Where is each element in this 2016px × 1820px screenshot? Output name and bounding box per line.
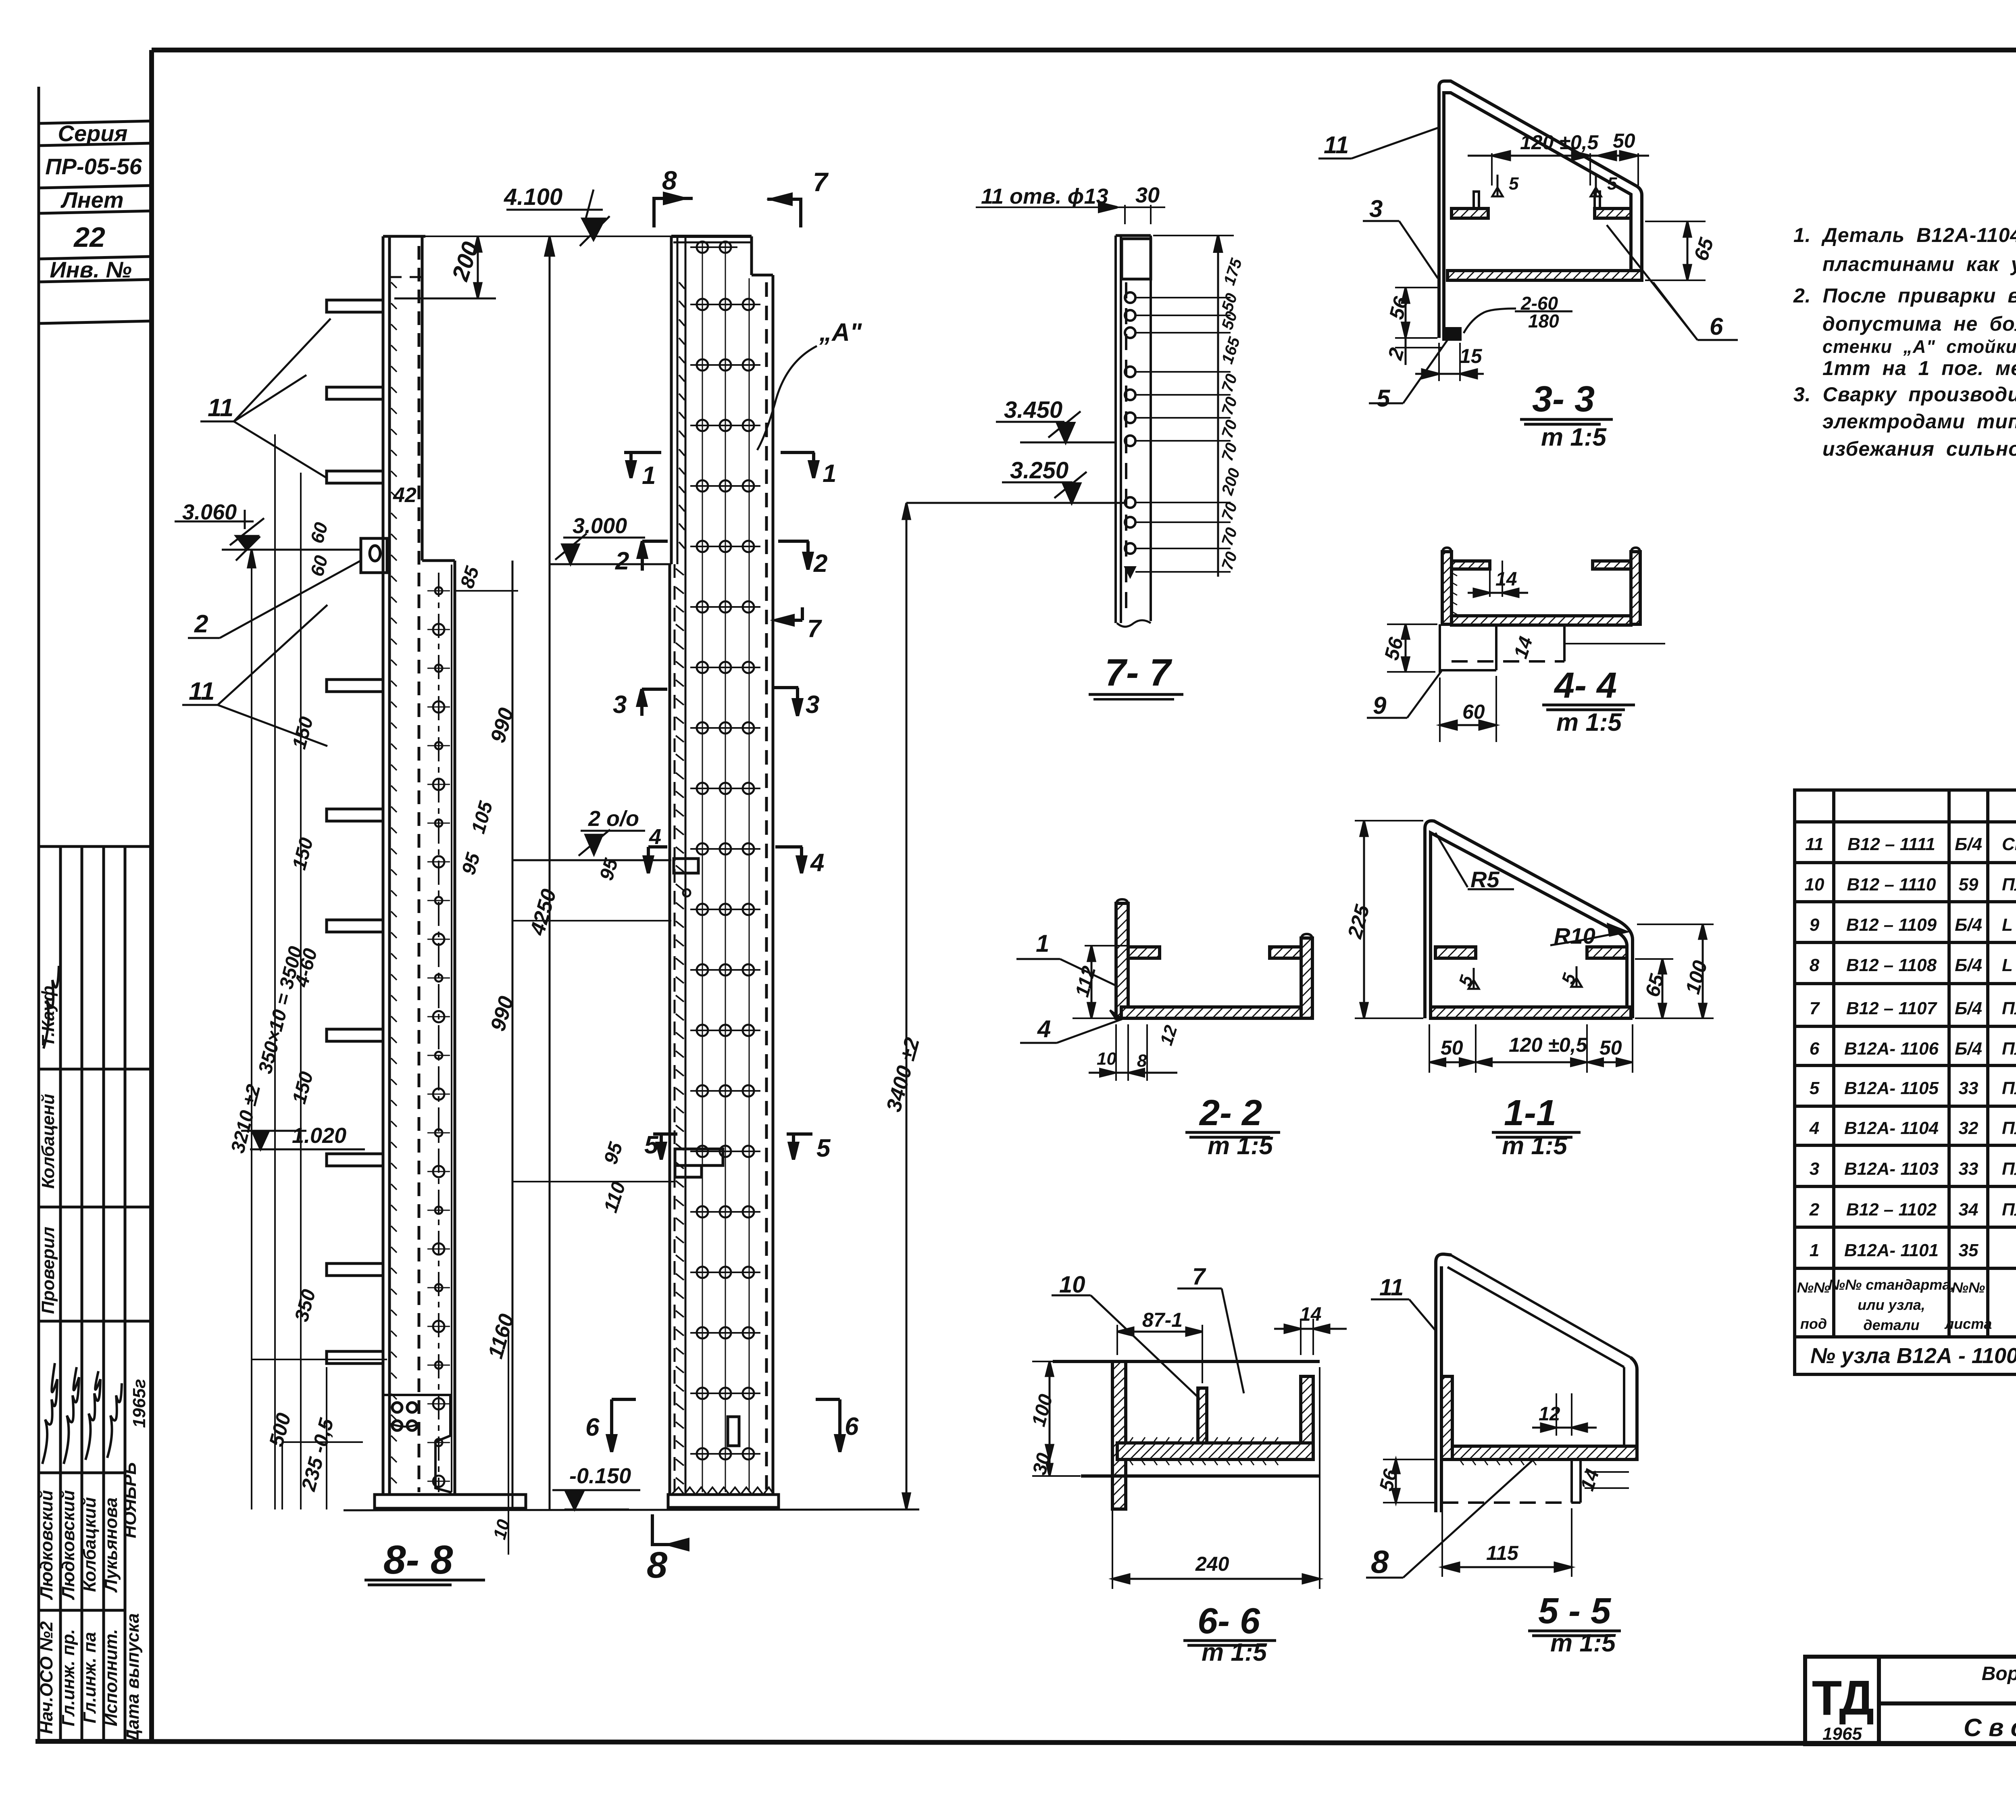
svg-text:Пластина - 6×60×120: Пластина - 6×60×120	[2002, 1200, 2016, 1220]
bottom node row	[1810, 1338, 2016, 1377]
svg-text:электродами типа Э42 ГОСТ: электродами типа Э42 ГОСТ 9467-60 с пере…	[1822, 410, 2016, 433]
dim 350x10=3500	[274, 434, 276, 1509]
svg-text:1-1: 1-1	[1504, 1093, 1556, 1133]
svg-text:7: 7	[1192, 1263, 1206, 1290]
svg-text:Гл.инж. пр.: Гл.инж. пр.	[58, 1629, 78, 1726]
svg-text:Лукьянова: Лукьянова	[101, 1497, 121, 1593]
post bar	[1114, 236, 1117, 623]
row 4	[1809, 1115, 2016, 1146]
svg-text:3. Сварку производить как: 3. Сварку производить как указано на чер…	[1793, 383, 2016, 406]
top cap box	[1122, 239, 1151, 279]
bottom web	[1452, 616, 1631, 625]
svg-text:1: 1	[1810, 1240, 1819, 1260]
level 3.060 left	[222, 549, 361, 551]
svg-text:42: 42	[393, 484, 417, 507]
mark 5 right	[787, 1134, 831, 1162]
weld marks	[1468, 966, 1582, 989]
weld serrations	[1129, 1437, 1278, 1443]
3.250 level	[1002, 482, 1073, 484]
svg-text:8- 8: 8- 8	[383, 1537, 453, 1582]
vertical plate	[1436, 1254, 1452, 1512]
bottom-left signature block	[39, 846, 152, 1741]
section cut marks around main view	[585, 165, 859, 1586]
dim 65 + 100 right	[1635, 924, 1714, 1018]
svg-text:В12 – 1111: В12 – 1111	[1847, 834, 1935, 854]
svg-text:1: 1	[642, 462, 656, 490]
svg-text:10: 10	[1805, 875, 1824, 894]
level 3.000 mid	[563, 537, 645, 539]
svg-text:180: 180	[1528, 311, 1559, 331]
middle stiffener	[1198, 1388, 1207, 1446]
svg-text:Б/4: Б/4	[1955, 955, 1982, 975]
svg-text:11: 11	[189, 678, 215, 705]
ground datum line	[344, 1509, 919, 1510]
right dim chain	[1217, 236, 1219, 577]
svg-text:2- 2: 2- 2	[1199, 1093, 1262, 1133]
svg-text:1: 1	[1036, 930, 1049, 957]
svg-text:В12 – 1109: В12 – 1109	[1846, 915, 1937, 935]
svg-text:5: 5	[1377, 385, 1391, 412]
svg-text:ПР-05-56: ПР-05-56	[45, 154, 142, 179]
small bracket on left post	[361, 538, 387, 573]
profile outline outer	[1425, 821, 1633, 1018]
main view labels	[182, 184, 924, 1582]
dimensions of main view	[175, 190, 1125, 1555]
svg-text:10: 10	[1059, 1272, 1085, 1298]
svg-text:6- 6: 6- 6	[1198, 1601, 1260, 1641]
svg-text:детали: детали	[1863, 1317, 1919, 1333]
svg-text:Колбаценй: Колбаценй	[38, 1094, 58, 1189]
left plate	[1116, 903, 1128, 1018]
right post outline	[668, 236, 779, 1507]
svg-text:Ступень Б×40×450: Ступень Б×40×450	[2002, 834, 2016, 854]
TD logo	[1812, 1670, 1873, 1744]
svg-text:Исполнит.: Исполнит.	[101, 1629, 121, 1726]
mark 1 right	[781, 452, 836, 488]
svg-text:60: 60	[1462, 700, 1485, 723]
row 7	[1810, 994, 2016, 1024]
weld serrations under web	[1460, 1459, 1536, 1465]
mark 7 top	[767, 167, 829, 227]
svg-text:1mm на 1 пог. метр и 2mm: 1mm на 1 пог. метр и 2mm на всей длине.	[1822, 357, 2016, 379]
svg-text:1.020: 1.020	[292, 1124, 346, 1148]
TITLE BLOCK	[1805, 1657, 2016, 1744]
bottom web hatched	[1447, 271, 1642, 280]
svg-text:В12А- 1105: В12А- 1105	[1844, 1078, 1939, 1098]
left flange	[1442, 552, 1452, 624]
svg-text:8: 8	[662, 165, 677, 195]
mark 8 bottom	[647, 1514, 688, 1586]
svg-text:С в сборе В12А - 1100: С в сборе В12А - 1100	[1964, 1714, 2016, 1742]
chain dim line x=746 (left 150 chain)	[300, 473, 302, 1509]
row 6	[1810, 1035, 2016, 1064]
long dim line 4250 (x=1363)	[549, 236, 551, 1509]
right flange	[1595, 208, 1631, 218]
row 11	[1805, 831, 2016, 861]
bottom web	[1117, 1443, 1313, 1459]
bottom line	[1081, 1474, 1320, 1478]
dim 120+-0.5 / 50	[1468, 151, 1649, 186]
svg-text:В12А- 1101: В12А- 1101	[1844, 1240, 1939, 1260]
svg-text:5: 5	[1509, 174, 1519, 194]
right vertical	[1631, 1357, 1637, 1459]
top-left lip	[1128, 947, 1160, 958]
svg-text:240: 240	[1195, 1553, 1229, 1575]
svg-text:Пластина -10×130×240: Пластина -10×130×240	[2002, 999, 2016, 1018]
svg-text:Пластина - 8×12×2080: Пластина - 8×12×2080	[2002, 1118, 2016, 1138]
left wall	[1112, 1361, 1126, 1509]
mark 2 left	[615, 541, 668, 575]
svg-text:11: 11	[1379, 1274, 1404, 1301]
svg-text:5: 5	[644, 1131, 659, 1159]
dim 56 / 2 left	[1395, 288, 1441, 365]
svg-text:Гл.инж. па: Гл.инж. па	[80, 1632, 100, 1724]
svg-text:4: 4	[1037, 1015, 1051, 1042]
svg-text:1. Деталь В12А-1104 прива: 1. Деталь В12А-1104 приварить с выдержко…	[1793, 224, 2016, 246]
level 1.020	[250, 1149, 365, 1151]
row 9	[1810, 912, 2016, 941]
svg-text:35: 35	[1959, 1240, 1979, 1260]
right post rivet holes	[690, 242, 760, 1459]
steps (ступень B12-1111) on left of post	[327, 300, 383, 1363]
inner line	[1431, 833, 1627, 1012]
svg-text:1965г: 1965г	[129, 1379, 149, 1428]
leaders 10 and 7	[1052, 1288, 1244, 1399]
dim 14 top right	[1274, 1319, 1347, 1355]
svg-text:3.250: 3.250	[1010, 457, 1068, 484]
left post rivet holes	[427, 587, 450, 1487]
base	[671, 1487, 774, 1495]
svg-text:8: 8	[1810, 955, 1820, 975]
svg-text:Людковский: Людковский	[58, 1490, 78, 1600]
mark 4 left	[644, 825, 667, 873]
mark 3 left	[613, 689, 667, 719]
svg-text:4: 4	[810, 849, 824, 877]
svg-text:3: 3	[1810, 1159, 1819, 1179]
svg-text:30: 30	[1135, 183, 1160, 207]
svg-text:пластинами как указано на: пластинами как указано на сборочном черт…	[1822, 253, 2016, 275]
lips	[1435, 947, 1476, 958]
svg-text:Пластина: Пластина	[2002, 875, 2016, 894]
dim 56	[1387, 624, 1437, 672]
svg-text:9: 9	[1810, 915, 1820, 935]
svg-text:50: 50	[1441, 1036, 1463, 1059]
bottom web	[1431, 1007, 1631, 1018]
svg-text:Серия: Серия	[58, 121, 128, 146]
svg-text:11: 11	[1324, 131, 1349, 158]
step plate 4 between posts	[674, 859, 698, 873]
svg-text:3: 3	[806, 691, 819, 719]
mark 7 right mid	[776, 607, 822, 643]
svg-text:№ узла В12А - 1100: № узла В12А - 1100	[1810, 1344, 2016, 1368]
mark 4 right	[775, 847, 824, 877]
svg-text:№№: №№	[1952, 1279, 1985, 1296]
svg-text:m 1:5: m 1:5	[1541, 423, 1607, 451]
svg-text:2: 2	[194, 610, 208, 638]
row 8	[1810, 952, 2016, 982]
R10 leader	[1585, 932, 1625, 940]
leader 11	[1318, 127, 1440, 158]
svg-text:В12 – 1107: В12 – 1107	[1846, 999, 1938, 1018]
step plate 5 lower	[675, 1149, 723, 1165]
svg-text:8: 8	[1371, 1544, 1389, 1580]
svg-text:стенки „А" стойки вокруг про: стенки „А" стойки вокруг продольной оси …	[1822, 336, 2016, 357]
svg-text:Колбацкий: Колбацкий	[80, 1497, 100, 1592]
1160 dim line	[508, 1331, 509, 1555]
svg-text:32: 32	[1959, 1118, 1979, 1138]
svg-text:„А": „А"	[819, 319, 862, 346]
dim 240	[1112, 1367, 1320, 1589]
8-8 underline	[364, 1579, 485, 1582]
dim 3400 +-2	[906, 503, 908, 1509]
svg-text:НОЯБРЬ: НОЯБРЬ	[120, 1462, 140, 1539]
svg-text:№№: №№	[1797, 1279, 1831, 1296]
svg-text:Б/4: Б/4	[1955, 1039, 1982, 1059]
svg-text:120 ±0,5: 120 ±0,5	[1520, 131, 1599, 154]
svg-text:11 отв. ϕ13: 11 отв. ϕ13	[981, 184, 1108, 208]
svg-text:2: 2	[813, 550, 827, 577]
weld serration on left flange	[1452, 573, 1457, 615]
svg-text:В12А- 1104: В12А- 1104	[1844, 1118, 1939, 1138]
dim 200	[477, 236, 479, 298]
svg-text:6: 6	[845, 1413, 859, 1441]
svg-text:33: 33	[1959, 1159, 1979, 1179]
svg-text:допустима не более 2mm на: допустима не более 2mm на всей длине; ск…	[1822, 313, 2016, 335]
dim 60 bottom	[1440, 676, 1496, 742]
bolt column	[1125, 292, 1135, 576]
svg-text:120 ±0,5: 120 ±0,5	[1509, 1034, 1587, 1056]
left post (стойка) outline upper part	[383, 236, 425, 1495]
dim 100 / 30	[1032, 1361, 1109, 1476]
header row	[1797, 1276, 2016, 1335]
svg-text:15: 15	[1460, 345, 1483, 367]
mark 5 left	[644, 1131, 677, 1159]
svg-text:Инв. №: Инв. №	[50, 257, 131, 282]
svg-text:-0.150: -0.150	[569, 1464, 631, 1488]
weld serration band on left post	[391, 282, 397, 1483]
svg-text:ТД: ТД	[1812, 1670, 1873, 1725]
svg-text:4: 4	[649, 825, 661, 849]
angle below left	[1440, 624, 1665, 673]
svg-text:3: 3	[1369, 195, 1383, 222]
svg-text:Пластина: Пластина	[2002, 1078, 2016, 1098]
dim 56	[1383, 1459, 1435, 1503]
svg-text:5: 5	[816, 1134, 831, 1162]
svg-text:№№ стандарта,: №№ стандарта,	[1829, 1276, 1955, 1293]
svg-text:листа: листа	[1944, 1315, 1992, 1332]
svg-text:или узла,: или узла,	[1858, 1297, 1925, 1313]
svg-text:1965: 1965	[1822, 1724, 1862, 1744]
mark 6 right	[816, 1399, 859, 1452]
svg-text:В12А- 1103: В12А- 1103	[1844, 1159, 1939, 1179]
svg-text:избежания сильного нагрева: избежания сильного нагрева соединяемых э…	[1822, 438, 2016, 460]
svg-text:В12А- 1106: В12А- 1106	[1844, 1039, 1939, 1059]
leaders 11 and 8	[1366, 1299, 1532, 1578]
svg-text:R10: R10	[1554, 923, 1595, 949]
level 2 o/o mid	[512, 859, 671, 861]
svg-text:В12 – 1108: В12 – 1108	[1846, 955, 1937, 975]
svg-text:В12 – 1110: В12 – 1110	[1847, 875, 1937, 894]
hole row ticks to right chain	[1135, 298, 1231, 572]
bottom dims 50 120 50	[1429, 1024, 1633, 1073]
row 2	[1809, 1196, 2016, 1227]
svg-text:50: 50	[1613, 129, 1635, 152]
svg-text:11: 11	[1805, 834, 1824, 854]
dim 87-1	[1117, 1325, 1202, 1383]
svg-text:В12 – 1102: В12 – 1102	[1846, 1200, 1937, 1220]
svg-text:3: 3	[613, 691, 627, 719]
small dims bottom	[1089, 1024, 1177, 1081]
svg-text:7: 7	[1810, 999, 1820, 1018]
svg-text:3- 3: 3- 3	[1532, 379, 1595, 419]
row 1	[1810, 1237, 2016, 1268]
weld serration band on right post	[676, 282, 685, 1484]
svg-text:22: 22	[73, 221, 105, 253]
NOTES	[1793, 184, 2016, 460]
top line	[1053, 1360, 1320, 1363]
svg-text:1: 1	[823, 460, 836, 488]
7-7 underline	[1089, 693, 1183, 696]
svg-text:50: 50	[1599, 1036, 1622, 1059]
border top	[152, 48, 2016, 52]
svg-text:14: 14	[1300, 1304, 1321, 1325]
border left	[149, 50, 154, 1741]
PARTS TABLE	[1795, 790, 2016, 1374]
dim 14 rotated	[1585, 1472, 1629, 1488]
bottom web	[1446, 1446, 1637, 1459]
slot hole near bottom	[728, 1417, 739, 1446]
left flange	[1452, 208, 1488, 218]
svg-text:Нач.ОСО №2: Нач.ОСО №2	[37, 1621, 56, 1734]
LEFT STAMP STRIP	[39, 87, 152, 1741]
leader 6	[1607, 225, 1738, 340]
svg-text:3.450: 3.450	[1004, 397, 1062, 423]
right flange	[1631, 552, 1640, 624]
svg-text:9: 9	[1373, 692, 1387, 719]
dim 65 right	[1645, 221, 1706, 280]
dim 115	[1442, 1508, 1572, 1577]
mark 1 left	[624, 452, 661, 490]
bottom small plate (2mm)	[1444, 329, 1460, 339]
svg-text:L 56×36×4 C=115: L 56×36×4 C=115	[2002, 955, 2016, 975]
svg-text:5 - 5: 5 - 5	[1538, 1591, 1612, 1631]
leader 3	[1363, 221, 1438, 278]
svg-text:6: 6	[1710, 313, 1723, 340]
dim 4.100 top	[506, 209, 603, 211]
leader 2-60/180	[1464, 309, 1516, 333]
svg-text:L 56×36×4 C=60: L 56×36×4 C=60	[2002, 915, 2016, 935]
svg-text:5: 5	[1810, 1078, 1820, 1098]
dim 12	[1532, 1393, 1597, 1436]
mark 2 right	[778, 541, 827, 577]
step profile outline	[1439, 81, 1642, 338]
svg-text:12: 12	[1539, 1403, 1560, 1425]
svg-text:2. После приварки всех эле: 2. После приварки всех элементов: непрям…	[1793, 284, 2016, 307]
left wall	[1441, 1376, 1452, 1459]
leader 5	[1369, 340, 1447, 403]
level -0.150 bottom	[564, 1509, 629, 1511]
3.250 level line extending to 7-7	[906, 502, 1125, 504]
svg-text:87-1: 87-1	[1142, 1309, 1183, 1331]
dim 225	[1355, 821, 1423, 1018]
svg-text:10: 10	[1097, 1049, 1116, 1069]
left post channel lower part	[422, 561, 455, 1495]
svg-text:4: 4	[1809, 1118, 1819, 1138]
svg-text:8: 8	[647, 1545, 668, 1586]
svg-text:m 1:5: m 1:5	[1556, 709, 1622, 736]
mark 8 top	[654, 165, 693, 227]
svg-text:2: 2	[615, 547, 629, 575]
leader 1	[1016, 959, 1117, 986]
dim 112	[1073, 946, 1129, 1018]
leader 4	[1020, 1010, 1122, 1043]
svg-text:R5: R5	[1470, 867, 1500, 892]
angle piece below right	[1442, 1459, 1581, 1503]
svg-text:Б/4: Б/4	[1955, 999, 1982, 1018]
11 holes dia 13 label	[976, 206, 1117, 208]
right wall	[1301, 1376, 1313, 1453]
chain dim line x=1271 (990 ...)	[512, 561, 514, 1509]
svg-text:4.100: 4.100	[504, 184, 562, 210]
svg-text:Пластина - 6×120×3140: Пластина - 6×120×3140	[2002, 1159, 2016, 1179]
left post hole column	[438, 573, 439, 1492]
row 3	[1810, 1155, 2016, 1186]
svg-text:Лнет: Лнет	[60, 187, 123, 213]
3.450 level	[996, 421, 1064, 423]
top lips	[1452, 561, 1490, 569]
svg-text:Б/4: Б/4	[1955, 834, 1982, 854]
svg-text:Проверил: Проверил	[38, 1227, 58, 1314]
svg-text:14: 14	[1495, 569, 1517, 590]
svg-text:Людковский: Людковский	[37, 1490, 56, 1600]
svg-text:Ворота подъемно- секционные: Ворота подъемно- секционные с	[1982, 1663, 2016, 1684]
svg-text:Б/4: Б/4	[1955, 915, 1982, 935]
svg-text:8: 8	[1137, 1051, 1147, 1071]
leader 9	[1367, 671, 1441, 718]
svg-text:2 о/о: 2 о/о	[588, 807, 639, 831]
svg-text:115: 115	[1486, 1542, 1519, 1564]
dim 15	[1415, 343, 1484, 381]
500 / 235 dims bottom left	[251, 1359, 252, 1509]
svg-text:3.060: 3.060	[182, 500, 237, 524]
svg-text:7: 7	[813, 167, 829, 197]
weld marks 5	[1492, 175, 1601, 196]
mark 6 left	[585, 1399, 636, 1452]
bottom web	[1121, 1007, 1310, 1018]
dim 3210 +-2	[251, 550, 252, 1509]
svg-text:m 1:5: m 1:5	[1202, 1639, 1267, 1666]
30 arrows	[1124, 205, 1126, 224]
svg-text:11: 11	[208, 394, 233, 422]
svg-text:m 1:5: m 1:5	[1550, 1629, 1616, 1657]
svg-text:Дата выпуска: Дата выпуска	[123, 1613, 143, 1743]
svg-text:Пластина - 5×42×1900: Пластина - 5×42×1900	[2002, 1039, 2016, 1059]
svg-text:6: 6	[1810, 1039, 1820, 1059]
svg-text:59: 59	[1959, 875, 1979, 894]
mark 3 right	[772, 688, 819, 719]
svg-text:5: 5	[1607, 174, 1617, 194]
svg-text:2: 2	[1809, 1200, 1820, 1220]
dim 14 top	[1468, 561, 1528, 597]
svg-text:3.000: 3.000	[573, 514, 627, 538]
R5 leader	[1435, 833, 1468, 887]
left post foot	[375, 1395, 526, 1508]
border bottom	[35, 1741, 2016, 1744]
row 10	[1805, 872, 2016, 903]
svg-text:33: 33	[1959, 1078, 1979, 1098]
svg-text:под: под	[1800, 1315, 1827, 1332]
svg-text:6: 6	[585, 1413, 600, 1441]
